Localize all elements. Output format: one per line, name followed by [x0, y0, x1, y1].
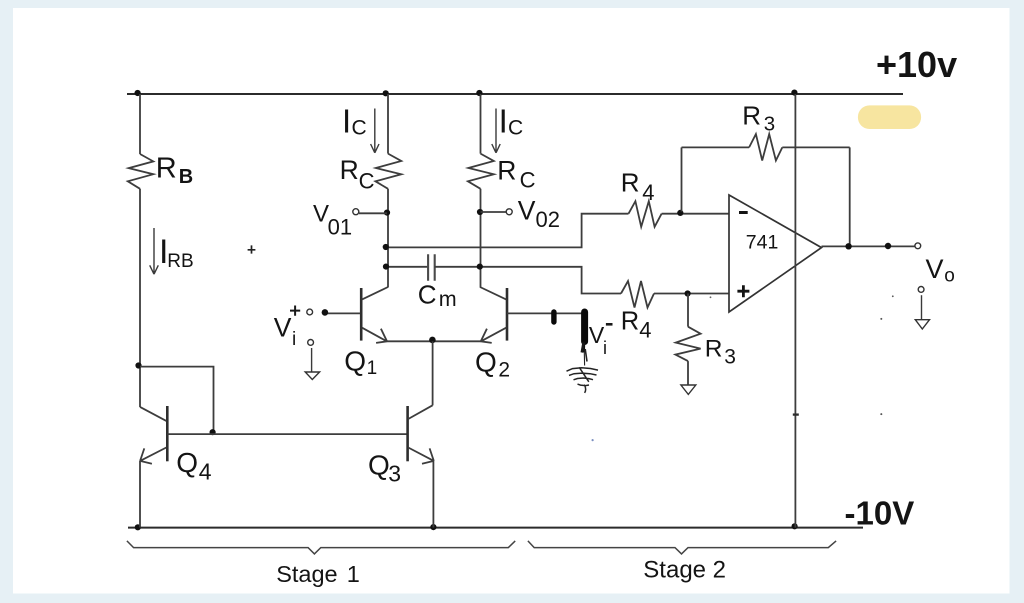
wire: V01 tap lead — [359, 212, 387, 214]
svg-text:3: 3 — [764, 112, 775, 135]
current arrow IC2 — [492, 109, 500, 153]
+10v label — [876, 44, 957, 85]
node: rail-RC1 junction — [383, 90, 389, 96]
svg-text:1: 1 — [367, 358, 378, 379]
Vo label — [926, 254, 955, 287]
svg-text:C: C — [359, 168, 375, 193]
wire: R4a to inverting input — [662, 213, 729, 215]
ground: Vi+ — [305, 348, 319, 380]
svg-text:4: 4 — [199, 458, 212, 484]
svg-text:3: 3 — [388, 460, 401, 486]
svg-text:R: R — [621, 167, 640, 197]
plus annotation — [248, 245, 256, 253]
svg-text:01: 01 — [328, 215, 352, 240]
ground: Vi- scribbled — [567, 367, 599, 393]
current arrow IC1 — [371, 109, 379, 153]
ink blob on Vi- lead — [551, 312, 556, 322]
transistor Q2 — [480, 287, 507, 343]
R4b label — [621, 307, 652, 342]
svg-text:Q: Q — [475, 347, 497, 378]
wire: feedback right vertical — [849, 147, 851, 246]
terminal: Vo — [915, 243, 921, 249]
svg-text:R: R — [156, 153, 177, 185]
IRB label — [159, 233, 194, 272]
svg-text:R: R — [742, 100, 761, 130]
svg-text:Q: Q — [344, 345, 366, 376]
stage 1 brace — [127, 541, 515, 554]
transistor Q4 — [140, 406, 167, 528]
Q2 label — [475, 347, 510, 382]
svg-text:1: 1 — [347, 561, 360, 587]
stage 2 brace — [528, 541, 836, 554]
node: Vi+ lead dot — [322, 309, 329, 316]
svg-text:4: 4 — [639, 317, 651, 342]
svg-text:R: R — [621, 307, 639, 335]
Q4 label — [176, 447, 212, 485]
svg-text:Stage: Stage — [276, 561, 337, 587]
node: rail-RC2 junction — [476, 90, 482, 96]
node: base line junction — [210, 429, 216, 435]
RC2 label — [497, 156, 535, 193]
svg-text:741: 741 — [746, 232, 779, 254]
terminal: V01 — [353, 209, 359, 215]
node: output dot — [885, 243, 891, 249]
wire: feedback left vertical — [681, 147, 683, 211]
svg-text:R: R — [705, 336, 723, 363]
node: non-inverting input junction — [685, 290, 691, 296]
terminal: V02 — [506, 209, 512, 215]
resistor R4b — [621, 281, 654, 308]
node: collector2 cap junction — [477, 264, 483, 270]
Vi- handwritten stroke — [582, 312, 587, 366]
wire: R4b to non-inverting input — [654, 293, 729, 295]
svg-text:Q: Q — [176, 447, 198, 478]
svg-text:V: V — [518, 196, 536, 226]
capacitor Cm — [428, 254, 435, 280]
wire: left branch vertical — [139, 94, 141, 407]
wire: V02 tap lead — [481, 211, 507, 213]
wire: V01 to R4a (node A) — [387, 214, 629, 248]
svg-text:V: V — [926, 254, 944, 284]
svg-text:V: V — [274, 313, 292, 343]
node: bottom rail Q3 junction — [430, 524, 436, 530]
yellow highlight mark — [858, 105, 921, 129]
svg-text:C: C — [508, 117, 523, 140]
R3b label — [705, 336, 736, 369]
-10V label — [845, 495, 915, 532]
transistor Q1 — [361, 287, 388, 343]
node: V02 tap — [477, 209, 483, 215]
terminal: Vi+ ground side — [308, 340, 314, 346]
node: V01 tap — [384, 210, 390, 216]
svg-text:m: m — [439, 287, 457, 311]
svg-text:C: C — [520, 167, 536, 192]
Vi+ label — [274, 306, 300, 350]
svg-text:i: i — [292, 329, 296, 350]
svg-text:-10V: -10V — [845, 495, 915, 532]
speck marks — [592, 295, 894, 441]
wire: Vi+ to Q1 base — [327, 312, 360, 314]
Cm label — [418, 279, 457, 311]
op-amp U1 741 — [729, 195, 822, 312]
Q3 label — [368, 450, 401, 487]
tick on supply drop — [793, 413, 799, 415]
svg-text:B: B — [179, 166, 193, 188]
svg-text:2: 2 — [498, 359, 510, 382]
svg-text:i: i — [603, 338, 607, 358]
resistor R3b — [675, 294, 700, 385]
svg-text:RB: RB — [167, 251, 193, 272]
wire: RC2 branch vertical — [480, 94, 482, 287]
svg-text:C: C — [418, 279, 437, 309]
RB value label — [156, 153, 193, 189]
Stage 2 label — [643, 556, 726, 583]
wire: op-amp output — [822, 245, 915, 247]
svg-text:I: I — [499, 102, 508, 139]
resistor RB — [128, 154, 154, 189]
wire: Q4-Q3 base line — [167, 433, 407, 435]
IC2 label — [499, 102, 524, 139]
ground: Vo — [915, 287, 929, 330]
transistor Q3 — [408, 405, 434, 527]
wire: supply drop vertical — [794, 94, 796, 528]
svg-text:3: 3 — [724, 346, 736, 369]
Stage 1 label — [276, 561, 360, 587]
node: collector1 cap junction — [383, 264, 389, 270]
wire: line B to R4b — [435, 267, 621, 294]
svg-text:o: o — [944, 266, 955, 287]
V01 label — [313, 201, 352, 240]
svg-text:+10v: +10v — [876, 44, 957, 85]
RC1 label — [340, 155, 375, 194]
terminal: Vi+ — [307, 309, 313, 315]
Vi- label — [589, 322, 613, 358]
node: output feedback junction — [845, 243, 851, 249]
node: emitter junction — [429, 337, 436, 344]
svg-text:R: R — [497, 156, 516, 186]
svg-text:R: R — [340, 155, 359, 185]
svg-text:C: C — [352, 117, 367, 140]
resistor R4a — [629, 201, 662, 227]
IC1 label — [342, 102, 367, 139]
svg-text:Stage 2: Stage 2 — [643, 556, 726, 583]
wire: collector line B left — [387, 266, 428, 268]
node: rail-RB junction — [135, 90, 141, 96]
svg-text:02: 02 — [536, 207, 560, 232]
V02 label — [518, 196, 560, 232]
wire: emitters to Q3 collector — [432, 341, 434, 405]
ground: R3b — [681, 385, 696, 394]
resistor RC2 — [468, 154, 494, 189]
wire: feedback top — [682, 146, 850, 148]
wire: shared emitter bus — [387, 340, 481, 342]
resistor R3a (feedback) — [749, 134, 782, 160]
svg-text:4: 4 — [642, 180, 654, 205]
Q1 label — [344, 345, 377, 379]
R3a label — [742, 100, 775, 135]
svg-text:I: I — [342, 102, 351, 139]
node: bottom rail Q4 junction — [135, 524, 141, 530]
-10V supply rail — [128, 527, 863, 529]
node: rail-supply-wire junction — [791, 90, 797, 96]
node: inverting input summing junction — [677, 210, 683, 216]
node: bottom rail supply-wire junction — [792, 523, 798, 529]
node: collector1 line-A junction — [383, 244, 389, 250]
+10V supply rail — [127, 93, 903, 95]
resistor RC1 — [375, 154, 401, 189]
node: RB to mirror tap — [135, 362, 141, 368]
wire: RC1 branch vertical — [387, 94, 389, 287]
wire: mirror base feed — [140, 367, 214, 434]
current arrow IRB — [150, 228, 159, 274]
R4a label — [621, 167, 655, 205]
wire: Q2 base to Vi- — [507, 312, 582, 314]
svg-text:Q: Q — [368, 450, 390, 481]
